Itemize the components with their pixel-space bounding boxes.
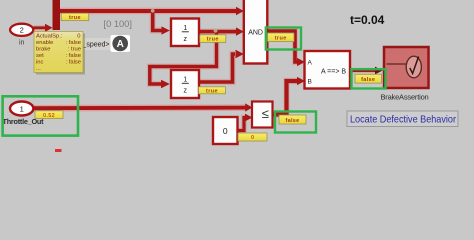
wire: implies output to assertion input xyxy=(350,69,375,72)
constant 0 block xyxy=(213,117,238,144)
assertion block xyxy=(384,47,429,88)
svg-text:: true: : true xyxy=(68,47,81,53)
svg-text:Locate Defective Behavior: Locate Defective Behavior xyxy=(350,113,456,125)
svg-text:0: 0 xyxy=(223,126,228,136)
badge false (implies output) xyxy=(355,74,382,83)
green highlight rect (relational output) xyxy=(275,112,316,133)
svg-text:A: A xyxy=(308,60,313,67)
green highlight rect (AND output) xyxy=(266,28,301,50)
signal label Actual_speed xyxy=(84,38,111,50)
badge 0 (constant output) xyxy=(238,133,267,141)
wire: inport 2 to bus bar xyxy=(34,26,47,29)
svg-text:false: false xyxy=(285,118,299,124)
svg-text:AND: AND xyxy=(248,29,263,36)
bus creator bar xyxy=(53,0,61,30)
implies block A ==> B xyxy=(305,51,351,89)
svg-text:inc: inc xyxy=(36,60,44,66)
svg-text:z: z xyxy=(184,36,188,43)
svg-text:enable: enable xyxy=(36,40,53,46)
svg-text:: false: : false xyxy=(66,60,81,66)
wire: throttle outport line to relational input 1 xyxy=(34,104,247,111)
badge A (logged signal) xyxy=(111,35,131,52)
wire: relational output up to implies B input xyxy=(273,81,298,115)
wire: unit delay 2 output up to AND input 3 xyxy=(199,54,235,82)
svg-text:set: set xyxy=(36,53,44,59)
wire: main top line from bus bar to AND input 1 xyxy=(58,8,237,15)
junction dot 2 xyxy=(214,29,218,33)
wire halos xyxy=(34,11,376,131)
inport 2 oval xyxy=(10,24,33,36)
svg-text:false: false xyxy=(361,77,375,83)
svg-text:true: true xyxy=(207,37,219,43)
svg-text:BrakeAssertion: BrakeAssertion xyxy=(380,92,428,101)
svg-text:0: 0 xyxy=(251,135,254,141)
svg-text:1: 1 xyxy=(20,105,24,114)
svg-text:B: B xyxy=(308,79,312,86)
badge true (bus output) xyxy=(61,13,88,21)
green highlight rect (outport) xyxy=(3,96,78,135)
button Locate Defective Behavior xyxy=(347,111,458,127)
badge true (AND output) xyxy=(268,33,295,42)
svg-text:0: 0 xyxy=(77,34,80,40)
unit delay block 2 xyxy=(171,70,199,98)
svg-text:1: 1 xyxy=(183,76,187,83)
wire: branch from junction down to unit delay 1 input xyxy=(153,11,162,31)
svg-text:: false: : false xyxy=(66,40,81,46)
svg-text:in: in xyxy=(19,40,25,47)
svg-text:A: A xyxy=(117,39,124,50)
red marker bottom xyxy=(55,149,62,152)
svg-text:true: true xyxy=(206,88,218,94)
AND block xyxy=(244,0,267,64)
svg-text:A ==> B: A ==> B xyxy=(321,68,346,75)
svg-text:t=0.04: t=0.04 xyxy=(350,13,385,27)
svg-text:1: 1 xyxy=(183,25,187,32)
svg-text:: false: : false xyxy=(66,53,81,59)
svg-text:brake: brake xyxy=(36,47,51,53)
wire: feedback from junction 2 down and around to unit delay 2 input xyxy=(150,32,217,84)
svg-text:2: 2 xyxy=(20,26,24,35)
relational operator block xyxy=(252,102,273,128)
canvas background xyxy=(0,0,474,152)
svg-text:ActualSp.:: ActualSp.: xyxy=(36,34,63,40)
svg-text:...: ... xyxy=(36,66,41,72)
wire: constant 0 to relational input 2 xyxy=(238,118,246,131)
svg-text:true: true xyxy=(275,36,287,42)
svg-text:true: true xyxy=(69,15,81,21)
badge 0.52 (throttle value) xyxy=(35,111,63,119)
green highlight rect (implies output) xyxy=(352,69,386,88)
wire: AND output right and down to implies A input xyxy=(268,31,298,62)
outport 1 oval xyxy=(10,102,33,116)
badge false (relational output) xyxy=(279,115,306,124)
svg-text:[0 100]: [0 100] xyxy=(104,19,132,29)
svg-text:≤: ≤ xyxy=(262,106,269,121)
wire: unit delay 1 output to AND input 2 xyxy=(199,30,237,34)
badge true (unit delay 2 output) xyxy=(199,87,226,95)
tooltip bus values xyxy=(34,32,85,75)
svg-text:z: z xyxy=(184,87,188,94)
svg-text:0.52: 0.52 xyxy=(43,113,55,119)
unit delay block 1 xyxy=(171,19,199,47)
junction dot on top line xyxy=(151,9,155,13)
badge true (unit delay 1 output) xyxy=(200,35,226,43)
